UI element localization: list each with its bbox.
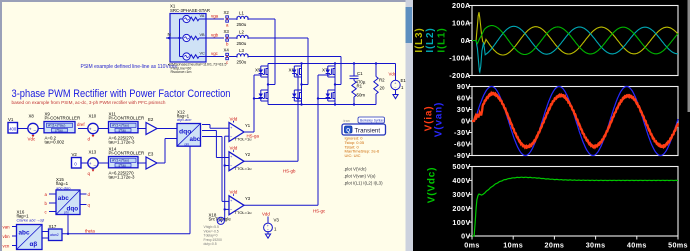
svg-text:L1: L1	[239, 10, 244, 15]
wire X11 to E2	[137, 128, 146, 130]
plot2 label V(ia)	[424, 106, 435, 132]
plot3 label V(Vdc)	[427, 167, 438, 203]
X15 input b	[45, 201, 57, 206]
svg-text:R1: R1	[357, 84, 363, 89]
svg-text:A*(1+s*tau): A*(1+s*tau)	[112, 124, 129, 128]
ground under E1	[393, 92, 398, 99]
svg-text:VA: VA	[200, 14, 205, 18]
subtitle	[12, 100, 166, 106]
PI controller X11	[109, 112, 145, 145]
svg-text:dref: dref	[77, 122, 85, 127]
svg-text:I(L3): I(L3)	[414, 27, 425, 52]
svg-text:10ms: 10ms	[503, 240, 523, 249]
node N arrow	[166, 32, 180, 40]
inductor L3 250u	[237, 48, 249, 65]
svg-text:250u: 250u	[237, 60, 247, 65]
svg-text:400V: 400V	[452, 176, 470, 185]
current sensor X4	[224, 47, 230, 65]
comparator Y3	[229, 190, 251, 215]
svg-text:−: −	[93, 130, 96, 135]
svg-text:+: +	[29, 127, 32, 132]
wire X12 phi down to theta	[189, 147, 191, 234]
scrollbar track	[406, 0, 414, 251]
wire E2 to X12	[157, 128, 177, 130]
svg-text:-90V: -90V	[454, 151, 471, 160]
inductor L2 250u	[237, 29, 249, 46]
svg-text:abc: abc	[190, 136, 201, 143]
svg-text:PSIM example defined line-line: PSIM example defined line-line as 110Vrm…	[81, 64, 178, 70]
block X17 atan2	[42, 224, 62, 241]
wire X14 to E3	[137, 162, 146, 164]
plot1 label I(L2)	[425, 27, 436, 52]
right window edge	[688, 0, 690, 112]
transform block X16 clarke	[17, 209, 45, 249]
svg-text:0ms: 0ms	[464, 240, 479, 249]
svg-text:VB: VB	[200, 33, 206, 37]
svg-text:A*(1+s*tau): A*(1+s*tau)	[48, 124, 65, 128]
svg-text:s*tau: s*tau	[119, 163, 127, 167]
svg-text:Vdc: Vdc	[28, 137, 37, 142]
note: RMS parameters	[168, 63, 226, 75]
summer X8	[28, 114, 39, 142]
wire X9 to X10, net dref	[77, 122, 88, 129]
comparator Y2	[229, 146, 251, 171]
wire HS-gb	[244, 161, 298, 173]
plot2 y axis labels	[454, 82, 472, 160]
svg-text:UIC: UIC: UIC: UIC	[345, 153, 361, 158]
transient parameters	[345, 136, 381, 159]
svg-text:Y3: Y3	[245, 196, 251, 201]
half-bridge leg X6	[289, 64, 302, 105]
svg-text:X17: X17	[49, 224, 57, 229]
svg-text:60V: 60V	[457, 94, 471, 103]
plot2 frame	[472, 87, 678, 156]
svg-text:C1: C1	[357, 71, 363, 76]
half-bridge leg X5	[255, 64, 268, 105]
svg-text:vgc: vgc	[211, 51, 219, 56]
sine source VA	[180, 14, 207, 22]
svg-text:V3: V3	[274, 218, 280, 223]
svg-text:Y2: Y2	[245, 152, 251, 157]
svg-text:X8: X8	[29, 114, 35, 119]
window border left	[0, 0, 2, 251]
source V3 Vdd	[262, 212, 279, 234]
svg-text:Vdd: Vdd	[230, 116, 238, 121]
svg-text:100A: 100A	[452, 19, 471, 28]
svg-text:V(Vdc): V(Vdc)	[427, 167, 438, 203]
svg-text:+: +	[89, 127, 92, 132]
trace I(L2)	[472, 26, 678, 72]
svg-text:V(van): V(van)	[434, 102, 445, 137]
wire V2 to X13	[81, 162, 88, 164]
svg-text:Vdc: Vdc	[389, 72, 397, 77]
wire HS-gc	[244, 205, 326, 213]
svg-text:250u: 250u	[237, 41, 247, 46]
wire X12 out b	[202, 131, 229, 158]
svg-text:dqo-abc: dqo-abc	[177, 117, 191, 122]
svg-text:I(L1): I(L1)	[437, 27, 448, 52]
svg-text:atan2: atan2	[50, 233, 59, 237]
svg-text:L2: L2	[239, 29, 244, 34]
svg-text:N: N	[168, 32, 171, 37]
trace I(L1)	[472, 26, 678, 55]
wire X15 phi to theta	[67, 215, 69, 236]
svg-text:vgb: vgb	[211, 33, 219, 38]
svg-text:dqo: dqo	[179, 129, 191, 136]
svg-text:400: 400	[9, 126, 17, 131]
net label vgb	[211, 33, 219, 38]
svg-text:Vdd: Vdd	[230, 146, 238, 151]
svg-text:Clarke abc→αβ: Clarke abc→αβ	[17, 218, 45, 223]
comparator Y1	[229, 116, 251, 141]
svg-text:PI-CONTROLLER: PI-CONTROLLER	[109, 151, 145, 156]
inductor L1 250u	[237, 10, 249, 27]
svg-text:0A: 0A	[461, 36, 471, 45]
svg-text:Transient: Transient	[355, 127, 381, 134]
X15 output d	[80, 192, 91, 197]
wire X12 out c	[202, 137, 229, 202]
X15 output q	[80, 202, 91, 207]
svg-text:200A: 200A	[452, 1, 471, 10]
X16 input van	[3, 224, 17, 229]
current sensor X2	[224, 10, 230, 28]
svg-text:X4: X4	[224, 47, 230, 52]
source E1 (Vdc sense)	[389, 64, 407, 95]
svg-text:I(L2): I(L2)	[425, 27, 436, 52]
svg-text:3-phase PWM Rectifier with Pow: 3-phase PWM Rectifier with Power Factor …	[12, 88, 231, 100]
PI controller X14	[109, 147, 145, 180]
svg-text:vga: vga	[211, 14, 219, 19]
svg-text:PI-CONTROLLER: PI-CONTROLLER	[109, 116, 145, 121]
wire sensor to L1	[229, 18, 237, 20]
plot3 frame	[472, 167, 678, 237]
trace V(van)	[472, 87, 678, 156]
svg-text:tau=1.172e-3: tau=1.172e-3	[109, 140, 136, 145]
svg-text:vbn: vbn	[3, 234, 11, 239]
wire L3 to bridge leg	[248, 57, 341, 86]
svg-text:E3: E3	[148, 152, 154, 157]
svg-text:Vdd: Vdd	[230, 190, 238, 195]
svg-text:Vdd: Vdd	[262, 212, 270, 217]
resistor R2 20	[374, 64, 385, 105]
svg-text:50m: 50m	[357, 93, 366, 98]
svg-text:PI-CONTROLLER: PI-CONTROLLER	[45, 116, 81, 121]
plot1 y axis labels	[449, 1, 472, 80]
sine source VC	[180, 52, 207, 60]
window border top	[0, 0, 413, 2]
svg-text:100V: 100V	[452, 218, 470, 227]
gate wire HS-ga	[253, 75, 262, 132]
svg-text:250u: 250u	[237, 22, 247, 27]
svg-text:300V: 300V	[452, 190, 470, 199]
svg-text:L3: L3	[239, 48, 244, 53]
source V1 400	[8, 117, 18, 133]
source X18 SrcTriangle	[204, 213, 232, 247]
plot2 label V(van)	[434, 102, 445, 137]
svg-text:phi: phi	[64, 211, 69, 215]
waveform panel background	[413, 0, 690, 251]
source V2 0	[72, 152, 82, 168]
trace V(ia)	[472, 93, 678, 148]
svg-text:-60V: -60V	[454, 140, 471, 149]
svg-text:50ms: 50ms	[668, 240, 688, 249]
current sensor X3	[224, 29, 230, 47]
wire sensor to L3	[229, 56, 237, 58]
X15 input c	[45, 209, 57, 214]
wire V1 to X8	[18, 128, 29, 130]
PI controller X9	[44, 112, 80, 145]
neutral rail inside X1	[178, 19, 180, 57]
wire L1 to bridge leg	[248, 19, 275, 86]
wire phase VB to sensor	[206, 37, 224, 39]
svg-text:TTOL=1u: TTOL=1u	[235, 210, 252, 215]
voltage source block X1 SRC-3PHASE-STAR	[170, 4, 210, 63]
svg-text:tau=1.172e-3: tau=1.172e-3	[109, 175, 136, 180]
buffer E2	[146, 117, 157, 135]
svg-text:s*tau: s*tau	[119, 128, 127, 132]
Transient button	[342, 124, 386, 135]
Berkeley Syntax tag	[358, 117, 385, 123]
wire L2 to bridge leg	[248, 38, 308, 86]
scrollbar thumb	[406, 7, 413, 43]
directive .tran	[343, 119, 350, 123]
svg-text:X10: X10	[89, 114, 97, 119]
wire X10 to X11	[98, 128, 109, 130]
svg-text:HS-ga: HS-ga	[247, 133, 260, 138]
svg-text:HS-gb: HS-gb	[283, 169, 296, 174]
svg-text:500V: 500V	[452, 162, 470, 171]
svg-text:20: 20	[380, 86, 385, 91]
svg-text:30V: 30V	[457, 105, 471, 114]
wire E3 up to X12 input q	[157, 139, 177, 164]
X16 input vbn	[3, 234, 17, 239]
svg-text:200V: 200V	[452, 204, 470, 213]
svg-text:X13: X13	[89, 150, 97, 155]
svg-text:abc: abc	[58, 195, 69, 202]
svg-text:based on example from PSIM, ac: based on example from PSIM, ac-dc, 3-ph …	[12, 100, 166, 106]
svg-text:Y1: Y1	[245, 123, 251, 128]
X16 input vcn	[3, 243, 17, 248]
svg-text:.plot I(L1) I(L2) I(L3): .plot I(L1) I(L2) I(L3)	[344, 181, 384, 186]
svg-text:0V: 0V	[461, 117, 471, 126]
svg-text:40ms: 40ms	[627, 240, 647, 249]
svg-text:VC: VC	[200, 52, 206, 56]
svg-text:−: −	[33, 130, 36, 135]
svg-text:TTOL=1u: TTOL=1u	[235, 166, 252, 171]
svg-text:HS-gc: HS-gc	[313, 208, 326, 213]
summer X10	[88, 114, 99, 142]
capacitor C1 470u	[350, 64, 366, 85]
net label vga	[211, 14, 219, 19]
transform block X12 dqo-abc	[177, 109, 201, 146]
resistor R1 50m	[352, 81, 366, 105]
svg-text:duty=0.5: duty=0.5	[204, 242, 217, 246]
wire sensor to L2	[229, 37, 237, 39]
ground under V3	[265, 231, 270, 238]
buffer E3	[146, 152, 157, 170]
wire X12 out a	[202, 125, 229, 129]
X15 input a	[45, 192, 57, 197]
svg-text:.tran: .tran	[343, 119, 350, 123]
svg-text:V1: V1	[8, 117, 14, 122]
plot1 label I(L1)	[437, 27, 448, 52]
net label vgc	[211, 51, 219, 56]
svg-text:−: −	[93, 164, 96, 169]
svg-text:.plot V(Vdc): .plot V(Vdc)	[344, 167, 367, 172]
svg-text:−: −	[394, 86, 396, 90]
svg-text:.plot V(van) V(a): .plot V(van) V(a)	[344, 174, 377, 179]
svg-text:X3: X3	[224, 29, 230, 34]
wire triangle carrier	[224, 136, 230, 221]
gate wire HS-gb	[296, 75, 299, 161]
svg-text:E2: E2	[148, 117, 154, 122]
trace V(Vdc)	[472, 177, 678, 236]
svg-text:V2: V2	[72, 152, 78, 157]
summer X13	[88, 150, 99, 177]
schematic background	[0, 0, 413, 251]
plot1 label I(L3)	[414, 27, 425, 52]
svg-text:A*(1+s*tau): A*(1+s*tau)	[112, 159, 129, 163]
svg-text:90V: 90V	[457, 82, 471, 91]
wire X8 to X9	[38, 128, 44, 130]
sine source VB	[180, 33, 207, 41]
wire phase VC to sensor	[206, 56, 224, 58]
svg-text:αβ: αβ	[30, 241, 38, 248]
gate wire HS-gc	[317, 75, 330, 205]
svg-text:SRC-3PHASE-STAR: SRC-3PHASE-STAR	[170, 8, 210, 13]
svg-text:theta: theta	[85, 229, 95, 234]
svg-text:abc: abc	[19, 230, 30, 237]
svg-text:30ms: 30ms	[586, 240, 606, 249]
svg-text:s*tau: s*tau	[55, 128, 63, 132]
note: PSIM example text	[81, 64, 178, 70]
svg-text:-100A: -100A	[449, 54, 470, 63]
bottom DC bus	[268, 103, 376, 105]
svg-text:Q: Q	[346, 128, 350, 134]
svg-text:-200A: -200A	[449, 71, 470, 80]
wire phase VA to sensor	[206, 18, 224, 20]
svg-text:vcn: vcn	[3, 243, 10, 248]
svg-text:X2: X2	[224, 10, 230, 15]
plot3 y axis labels	[452, 162, 472, 241]
svg-text:+: +	[89, 162, 92, 167]
trace I(L3)	[472, 12, 678, 55]
plot directives	[344, 167, 384, 186]
top DC bus	[268, 62, 396, 64]
svg-text:-30V: -30V	[454, 128, 471, 137]
wire X13 to X14	[98, 162, 109, 164]
transform block X15 abc-dqo	[56, 177, 80, 215]
svg-text:Berkeley Syntax: Berkeley Syntax	[360, 118, 384, 122]
plot1 frame	[472, 6, 678, 76]
wire HS-ga	[244, 132, 260, 138]
x axis labels	[464, 236, 688, 249]
svg-text:20ms: 20ms	[545, 240, 565, 249]
svg-text:phi: phi	[185, 143, 190, 147]
half-bridge leg X7	[322, 64, 335, 105]
svg-text:van: van	[3, 224, 11, 229]
title	[12, 88, 231, 100]
svg-text:R2: R2	[379, 78, 385, 83]
svg-text:tau=0.002: tau=0.002	[45, 140, 65, 145]
wire theta	[62, 229, 190, 234]
svg-text:Rsource=1m: Rsource=1m	[171, 70, 192, 74]
